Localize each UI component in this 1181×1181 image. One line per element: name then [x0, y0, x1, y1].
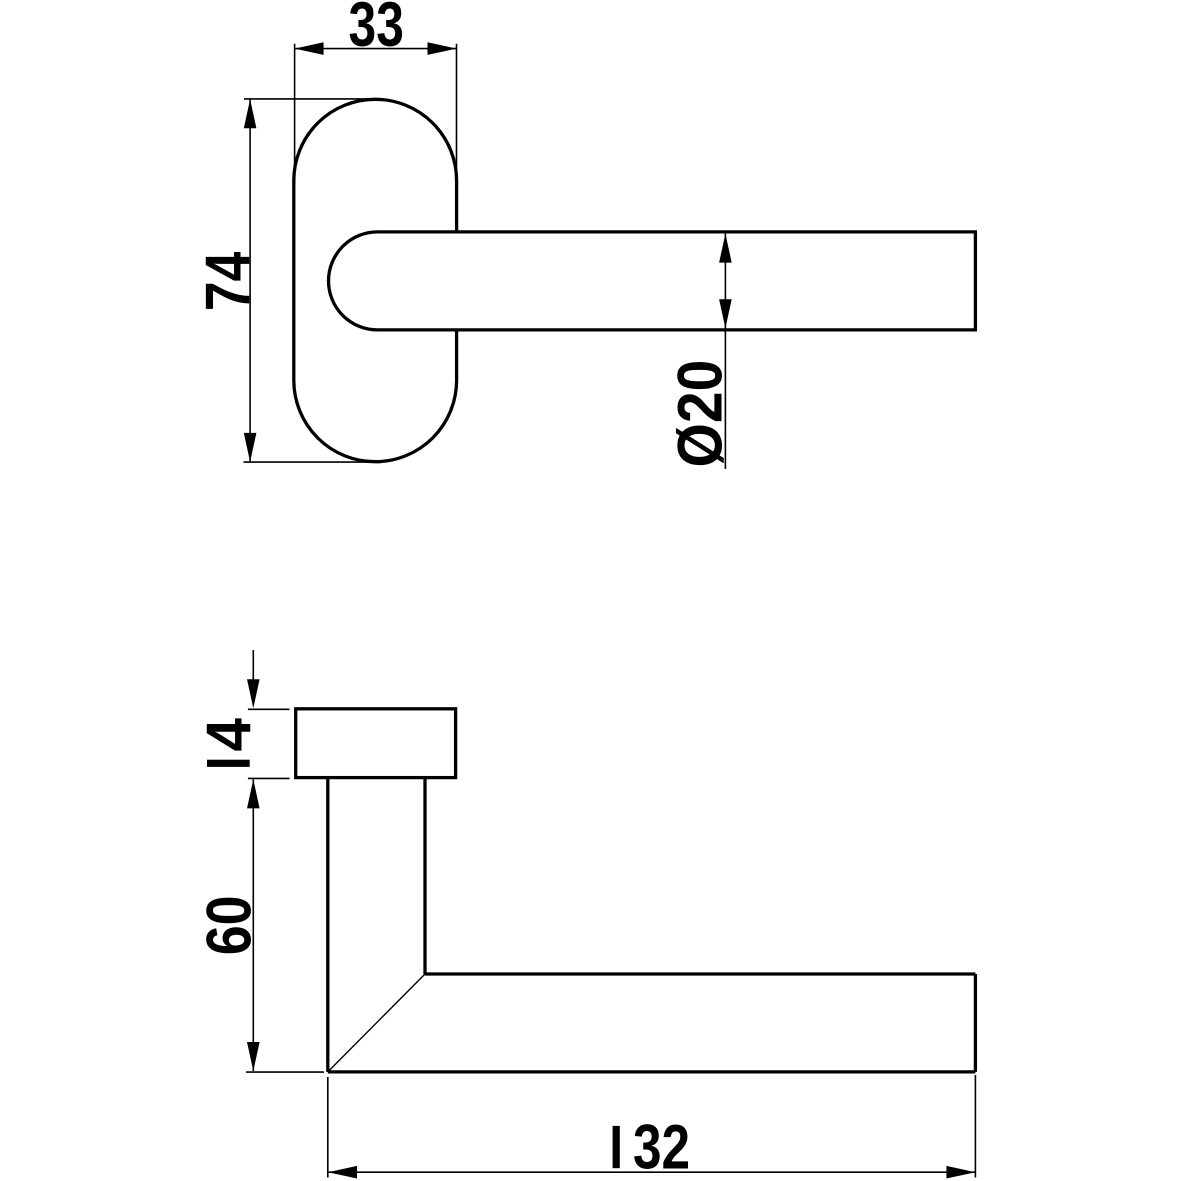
- svg-text:4: 4: [195, 718, 265, 751]
- svg-text:Ø20: Ø20: [666, 360, 736, 468]
- svg-text:60: 60: [194, 896, 264, 956]
- svg-text:32: 32: [633, 1113, 690, 1181]
- svg-text:33: 33: [349, 0, 404, 60]
- svg-text:74: 74: [193, 252, 263, 311]
